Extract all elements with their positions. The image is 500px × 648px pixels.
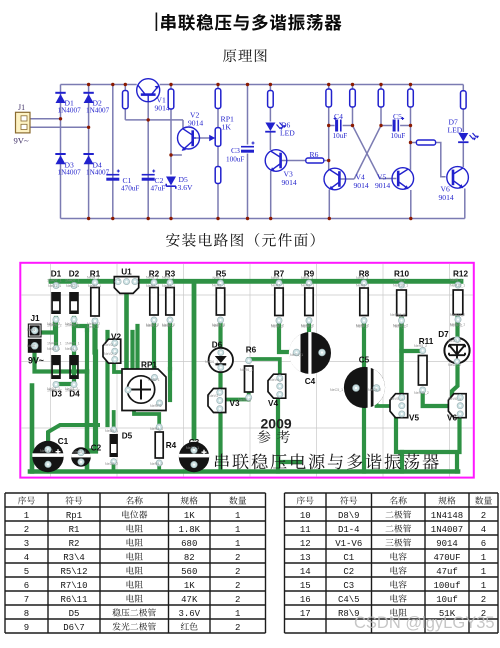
pcb resistor R4	[155, 424, 163, 466]
svg-text:NeD7_1: NeD7_1	[448, 339, 461, 343]
svg-text:NeR3_2: NeR3_2	[162, 323, 175, 327]
LED D6	[265, 123, 286, 132]
svg-text:J1: J1	[18, 103, 25, 112]
svg-text:D5: D5	[122, 432, 133, 441]
svg-text:1: 1	[235, 539, 240, 549]
svg-text:NeD5_2: NeD5_2	[105, 462, 118, 466]
trace D2 jog	[74, 322, 87, 330]
svg-text:C5: C5	[359, 356, 370, 365]
svg-text:R1: R1	[69, 525, 80, 535]
transistor V6 9014	[447, 167, 469, 189]
svg-text:NeR1_2: NeR1_2	[87, 322, 100, 326]
junction x=328.7 y=160.5	[327, 159, 330, 162]
pcb transistor V2	[103, 339, 121, 363]
svg-text:9: 9	[24, 623, 29, 633]
svg-text:V1-V6: V1-V6	[335, 539, 362, 549]
title cursor bar	[156, 13, 158, 32]
svg-text:1N4007: 1N4007	[86, 169, 110, 177]
diode D4 1N4007	[84, 155, 94, 164]
svg-text:9014: 9014	[282, 178, 297, 187]
trace R10 to V5	[399, 319, 404, 394]
svg-text:NeR5_1: NeR5_1	[212, 284, 225, 288]
trace to V2	[108, 343, 115, 347]
svg-text:NeD2_2: NeD2_2	[65, 322, 78, 326]
pcb transistor U1	[114, 277, 138, 294]
svg-text:NeC4_1: NeC4_1	[290, 353, 303, 357]
svg-text:CSDN @lgyLGY35: CSDN @lgyLGY35	[354, 614, 495, 632]
trace J1 pin1 to D1	[41, 321, 55, 333]
pcb resistor R6	[245, 357, 253, 400]
svg-text:14: 14	[300, 567, 311, 577]
wire C5 right to R10	[400, 125, 410, 127]
svg-text:NeD4_1: NeD4_1	[65, 347, 78, 351]
svg-text:16: 16	[300, 595, 311, 605]
transistor V2 9014	[178, 127, 200, 151]
svg-text:D5: D5	[69, 609, 80, 619]
svg-text:D1-4: D1-4	[338, 525, 360, 535]
pcb resistor R10	[394, 278, 407, 329]
trace x87 upper	[85, 330, 89, 372]
trace R6 top to V4	[249, 359, 280, 378]
RP1 wiper arrow	[209, 135, 215, 141]
svg-text:D8\9: D8\9	[338, 511, 360, 521]
wire C3 column	[247, 85, 249, 219]
pcb transistor V5	[390, 394, 408, 418]
svg-text:C3: C3	[231, 146, 240, 155]
svg-text:10uF: 10uF	[391, 132, 406, 140]
junction x=171 y=155	[169, 153, 172, 156]
junction bottom rail x=171	[169, 217, 172, 220]
svg-text:NeR10_2: NeR10_2	[390, 313, 405, 317]
wire cross coupling A	[353, 126, 380, 179]
wire to R11	[411, 142, 417, 144]
title text	[161, 14, 176, 31]
svg-text:1N407_1: 1N407_1	[65, 279, 80, 283]
diode D2 1N4007	[84, 94, 94, 103]
svg-text:9014: 9014	[354, 181, 369, 190]
junction top rail x=171	[169, 83, 172, 86]
wire R1 column	[124, 85, 126, 120]
trace to RP1 a	[130, 332, 134, 370]
pcb resistor R5	[213, 276, 225, 328]
svg-text:2: 2	[24, 525, 29, 535]
wire V1 base / C2 column	[147, 102, 149, 219]
svg-text:NeV4_1: NeV4_1	[270, 378, 283, 382]
resistor R11	[416, 140, 435, 145]
trace D1 to D3	[54, 318, 58, 345]
resistor R7	[326, 89, 332, 107]
svg-text:NeR5_2: NeR5_2	[414, 344, 427, 348]
svg-text:R6\11: R6\11	[60, 595, 87, 605]
trace R12 to V6	[452, 318, 458, 398]
pcb resistor R3	[162, 276, 174, 329]
wire RP1 column	[217, 85, 219, 219]
svg-text:NetR_1: NetR_1	[450, 278, 462, 282]
svg-text:1: 1	[481, 567, 486, 577]
svg-text:R6: R6	[246, 346, 257, 355]
svg-text:1N4007: 1N4007	[86, 107, 110, 115]
svg-text:R4: R4	[166, 441, 177, 450]
wire D2-D4 column	[88, 85, 90, 219]
svg-text:17: 17	[300, 609, 311, 619]
wire bottom rail	[61, 218, 465, 220]
wire C1 column	[112, 85, 114, 219]
svg-text:R9: R9	[304, 270, 315, 279]
pcb diode D2	[65, 279, 80, 328]
svg-text:J1: J1	[30, 314, 40, 323]
svg-text:NeR2_1: NeR2_1	[146, 284, 159, 288]
pcb transistor V6	[448, 394, 466, 418]
svg-text:NeR6_2: NeR6_2	[238, 398, 251, 402]
wire R12 D7 V6 column	[463, 85, 465, 219]
svg-text:2: 2	[235, 553, 240, 563]
transistor V1 9014	[137, 79, 160, 102]
svg-text:D2: D2	[69, 270, 80, 279]
svg-text:NeC5_1: NeC5_1	[330, 388, 343, 392]
svg-text:7: 7	[24, 595, 29, 605]
pcb diode D4	[65, 342, 80, 393]
PCB section title	[166, 233, 180, 247]
wire R8 column	[352, 85, 354, 126]
svg-text:8: 8	[24, 609, 29, 619]
PCB board frame	[20, 263, 474, 478]
trace D2 to D4	[72, 318, 76, 384]
capacitor C3 100uF	[241, 146, 254, 148]
pcb transistor V3	[208, 389, 226, 413]
wire V2 base to RP1	[196, 137, 212, 139]
trace to R11	[402, 349, 423, 353]
svg-text:1: 1	[118, 278, 120, 282]
junction top rail x=270.4	[269, 83, 272, 86]
junction top rail x=247.5	[246, 83, 249, 86]
svg-text:NeC1_1: NeC1_1	[40, 449, 53, 453]
svg-text:1: 1	[235, 609, 240, 619]
svg-text:NeR10_1: NeR10_1	[393, 284, 408, 288]
svg-text:V2: V2	[111, 333, 121, 342]
svg-text:9014: 9014	[188, 119, 203, 128]
svg-text:NeC2_1: NeC2_1	[73, 450, 86, 454]
svg-text:1N4148: 1N4148	[431, 511, 463, 521]
trace R3 down	[168, 321, 172, 369]
trace U1 center pad down	[124, 283, 129, 369]
junction x=148.2 y=119.9	[147, 118, 150, 121]
capacitor C2 47uF	[142, 174, 155, 176]
svg-text:NeV6_1: NeV6_1	[448, 397, 461, 401]
junction bottom rail x=88.6	[87, 217, 90, 220]
svg-text:NeR8_1: NeR8_1	[356, 284, 369, 288]
svg-text:9014: 9014	[375, 181, 390, 190]
svg-text:NeD1_2: NeD1_2	[47, 322, 60, 326]
svg-text:NeJ2: NeJ2	[27, 344, 35, 348]
svg-text:1: 1	[481, 553, 486, 563]
svg-text:4: 4	[481, 525, 486, 535]
svg-text:9014: 9014	[439, 193, 454, 202]
resistor R9	[378, 89, 384, 107]
wire to C4 left	[329, 125, 335, 127]
LED D7	[458, 133, 479, 142]
junction top rail x=88.6	[87, 83, 90, 86]
svg-text:NeD3_2: NeD3_2	[47, 387, 60, 391]
pcb capacitor C5	[344, 367, 385, 408]
trace bottom bus	[30, 469, 458, 474]
trace V5 down	[396, 414, 402, 452]
svg-text:LED: LED	[280, 129, 295, 138]
svg-text:NeR4_1: NeR4_1	[150, 427, 163, 431]
svg-text:470UF: 470UF	[433, 553, 460, 563]
junction top rail x=381	[379, 83, 382, 86]
junction bottom rail x=247.5	[246, 217, 249, 220]
svg-text:NeR10_2: NeR10_2	[393, 324, 408, 328]
trace RP1 to R4	[134, 406, 159, 423]
svg-text:1: 1	[481, 581, 486, 591]
wire to V4 base	[340, 178, 355, 180]
resistor below RP1	[215, 167, 221, 184]
diode D3 1N4007	[56, 155, 66, 164]
pcb resistor R12	[450, 278, 463, 328]
pcb capacitor C4	[289, 332, 331, 374]
resistor R8	[350, 89, 356, 107]
svg-text:V6: V6	[447, 414, 457, 423]
svg-text:1N407_1: 1N407_1	[47, 342, 62, 346]
pcb transistor V4	[268, 374, 286, 398]
svg-text:NeR11_2: NeR11_2	[414, 391, 429, 395]
trace V4 down	[278, 396, 300, 472]
junction bottom rail x=112.8	[111, 217, 114, 220]
wire to V5 base	[380, 178, 397, 180]
svg-text:C4\5: C4\5	[338, 595, 360, 605]
trace R2 down	[152, 321, 156, 371]
trace R11 to V6	[423, 390, 455, 406]
junction bottom rail x=218	[216, 217, 219, 220]
svg-text:RP1: RP1	[141, 361, 157, 370]
pcb capacitor C3	[179, 442, 209, 472]
svg-text:NeV2_2: NeV2_2	[104, 352, 117, 356]
junction top rail x=112.8	[111, 83, 114, 86]
resistor R6	[306, 158, 324, 163]
svg-text:R5\12: R5\12	[60, 567, 87, 577]
svg-text:82: 82	[184, 553, 195, 563]
wire V3 base to R6	[281, 160, 306, 162]
svg-text:NeR7_2: NeR7_2	[271, 324, 284, 328]
svg-text:R2: R2	[69, 539, 80, 549]
svg-text:680: 680	[181, 539, 197, 549]
wire R11 to V6 base	[436, 143, 446, 177]
wire R7 V4 column	[328, 85, 331, 219]
wire V2 emitter to D5	[171, 154, 182, 156]
trace R8 to C5	[362, 321, 366, 368]
pcb text 参考	[257, 430, 270, 443]
svg-text:1: 1	[235, 525, 240, 535]
svg-text:R3\4: R3\4	[63, 553, 85, 563]
svg-text:R6: R6	[310, 150, 319, 159]
pcb grid	[21, 264, 473, 477]
svg-text:NeR2_2: NeR2_2	[146, 323, 159, 327]
svg-text:13: 13	[300, 553, 311, 563]
svg-text:6: 6	[481, 539, 486, 549]
table left content	[18, 496, 26, 504]
svg-text:C1: C1	[343, 553, 354, 563]
trace D5 top up	[112, 412, 116, 429]
svg-text:11: 11	[300, 525, 311, 535]
svg-text:C5: C5	[393, 112, 402, 121]
junction top rail x=125.3	[124, 83, 127, 86]
svg-text:NeR4_2: NeR4_2	[150, 462, 163, 466]
svg-text:1N407_1: 1N407_1	[47, 279, 62, 283]
junction top rail x=352.5	[351, 83, 354, 86]
subtitle 原理图	[223, 49, 236, 62]
svg-text:C1: C1	[58, 437, 69, 446]
svg-text:1K: 1K	[222, 123, 232, 132]
trace R3 lower	[168, 369, 172, 400]
junction x=410.5 y=125.5	[409, 124, 412, 127]
trace D5 bottom	[112, 461, 116, 472]
svg-text:100uf: 100uf	[433, 581, 460, 591]
svg-text:NeV2_1: NeV2_1	[104, 343, 117, 347]
svg-text:1K: 1K	[184, 511, 195, 521]
capacitor C5 10uF	[393, 120, 396, 132]
resistor R10	[408, 89, 414, 107]
resistor R12	[461, 91, 467, 109]
junction bottom rail x=410.8	[409, 217, 412, 220]
wire R9 column	[380, 85, 382, 126]
connector J1	[16, 112, 31, 133]
pcb diode D1	[47, 279, 62, 328]
diode D1 1N4007	[56, 94, 66, 103]
wire J1 pin2	[30, 126, 89, 128]
wire J1 pin1	[30, 118, 61, 120]
junction bottom rail x=329.3	[328, 217, 331, 220]
svg-text:2: 2	[481, 595, 486, 605]
svg-text:U1: U1	[121, 268, 132, 277]
pcb capacitor C1	[32, 441, 63, 472]
trace V6 down	[457, 414, 461, 453]
svg-text:R7: R7	[274, 270, 285, 279]
svg-text:1N407_1: 1N407_1	[65, 342, 80, 346]
trace V3 to R6 bottom	[223, 393, 249, 400]
svg-text:2: 2	[235, 581, 240, 591]
trace C3 column	[192, 283, 197, 438]
junction x=60.5 y=118.8	[59, 117, 62, 120]
svg-text:D7: D7	[438, 330, 449, 339]
svg-text:4: 4	[24, 553, 29, 563]
trace R7 to C4	[279, 321, 295, 352]
svg-text:D6: D6	[212, 341, 223, 350]
svg-text:R5: R5	[216, 270, 227, 279]
trace top bus	[51, 279, 461, 284]
trace R9 to C4	[309, 321, 321, 352]
pcb diode D3	[47, 342, 62, 393]
pcb capacitor C2	[71, 447, 91, 467]
junction bottom rail x=270.7	[269, 217, 272, 220]
svg-text:3: 3	[24, 539, 29, 549]
junction x=410.5 y=142.5	[409, 141, 412, 144]
pcb diode D6	[209, 348, 233, 372]
transistor V4 9014	[324, 168, 346, 190]
wire top rail	[61, 84, 464, 86]
svg-text:1: 1	[24, 511, 29, 521]
junction top rail x=218	[216, 83, 219, 86]
wire R6 to V4	[324, 160, 329, 162]
svg-text:NeD4_2: NeD4_2	[65, 387, 78, 391]
svg-text:2: 2	[481, 511, 486, 521]
pcb resistor R1	[87, 276, 99, 330]
svg-text:V4: V4	[268, 399, 278, 408]
svg-text:NeR12_1: NeR12_1	[450, 323, 465, 327]
svg-text:3.6V: 3.6V	[178, 183, 193, 192]
wire cross coupling B	[354, 126, 381, 180]
svg-text:NeR9_2: NeR9_2	[301, 324, 314, 328]
junction top rail x=410.5	[409, 83, 412, 86]
junction x=328.7 y=125.5	[327, 124, 330, 127]
svg-text:NeR5_2: NeR5_2	[212, 323, 225, 327]
transistor V3 9014	[265, 150, 287, 172]
svg-text:NeD3_1: NeD3_1	[47, 347, 60, 351]
pcb resistor R8	[356, 276, 368, 329]
svg-text:R1: R1	[90, 270, 101, 279]
svg-text:47uf: 47uf	[436, 567, 458, 577]
junction x=352.5 y=125.5	[351, 124, 354, 127]
svg-text:NeR9_1: NeR9_1	[301, 284, 314, 288]
trace C1 top bend	[48, 425, 98, 440]
pcb bottom title	[215, 454, 229, 470]
svg-text:47K: 47K	[181, 595, 198, 605]
svg-text:12: 12	[300, 539, 311, 549]
svg-text:NeD6_1: NeD6_1	[205, 360, 218, 364]
svg-text:NeR12_1: NeR12_1	[450, 284, 465, 288]
wire to C5 left	[381, 125, 392, 127]
trace to RP1 b	[135, 326, 139, 370]
capacitor C1 470uF	[106, 174, 119, 176]
resistor R5	[268, 91, 274, 108]
svg-text:NeD1_1: NeD1_1	[48, 284, 61, 288]
junction bottom rail x=148.2	[147, 217, 150, 220]
pcb connector J1	[28, 324, 42, 353]
svg-text:NetR_1: NetR_1	[394, 278, 406, 282]
svg-text:9V~: 9V~	[28, 356, 44, 366]
trace R5 down	[218, 321, 222, 470]
svg-text:NeR3_1: NeR3_1	[162, 284, 175, 288]
svg-text:NeD2_1: NeD2_1	[66, 284, 79, 288]
svg-text:1N4007: 1N4007	[431, 525, 463, 535]
wire D1-D3 column	[60, 85, 62, 219]
svg-text:C2: C2	[343, 567, 354, 577]
potentiometer RP1 body	[215, 128, 221, 147]
svg-text:1N4007: 1N4007	[58, 107, 82, 115]
trace C5 to V5	[377, 391, 395, 406]
wire R1 to V2 collector	[125, 119, 183, 121]
svg-text:NeR1_1: NeR1_1	[88, 284, 101, 288]
junction x=88.6 y=127.3	[87, 126, 90, 129]
svg-text:2: 2	[235, 623, 240, 633]
pcb resistor R9	[301, 276, 313, 329]
svg-text:10uF: 10uF	[333, 132, 348, 140]
svg-text:C3: C3	[343, 581, 354, 591]
wire V2 collector drop	[182, 120, 184, 129]
wire C4 right to R8	[343, 125, 353, 127]
table right grid	[285, 493, 499, 633]
zener diode D5 3.6V	[166, 177, 176, 189]
svg-text:R10: R10	[394, 270, 409, 279]
svg-text:NeRP1: NeRP1	[148, 378, 160, 382]
svg-text:470uF: 470uF	[121, 185, 139, 193]
trace C5 down	[362, 406, 366, 472]
pcb diode D5	[110, 427, 118, 465]
svg-text:10uf: 10uf	[436, 595, 458, 605]
svg-text:NeR12_2: NeR12_2	[450, 313, 465, 317]
svg-text:NeRP2: NeRP2	[150, 404, 162, 408]
svg-text:LED: LED	[448, 126, 463, 135]
svg-text:NeR8_2: NeR8_2	[356, 324, 369, 328]
